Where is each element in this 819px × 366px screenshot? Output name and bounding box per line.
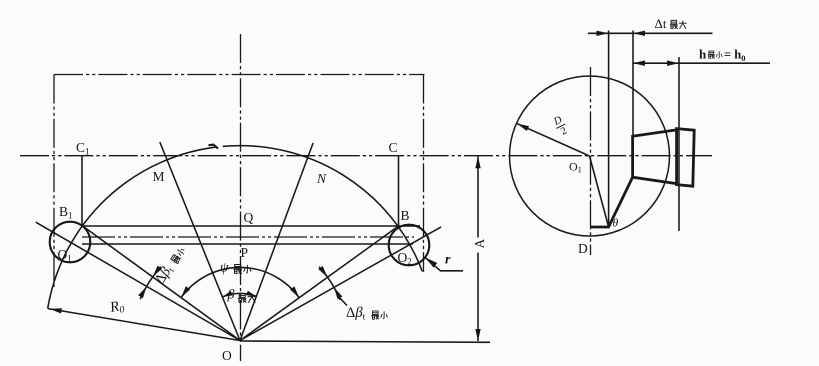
svg-text:A: A — [472, 239, 487, 249]
svg-text:ψ: ψ — [220, 260, 229, 275]
svg-text:O: O — [222, 348, 232, 363]
svg-text:r: r — [445, 253, 451, 268]
svg-text:P: P — [241, 245, 249, 260]
svg-text:C: C — [389, 140, 398, 155]
svg-text:M: M — [153, 169, 165, 184]
svg-text:Q: Q — [244, 210, 254, 225]
svg-text:D: D — [578, 241, 588, 256]
svg-text:N: N — [316, 171, 327, 186]
svg-text:θ: θ — [613, 218, 619, 230]
svg-text:Δt: Δt — [655, 16, 667, 31]
svg-text:B: B — [401, 208, 410, 223]
svg-text:h: h — [699, 47, 707, 62]
svg-text:β: β — [227, 288, 235, 303]
